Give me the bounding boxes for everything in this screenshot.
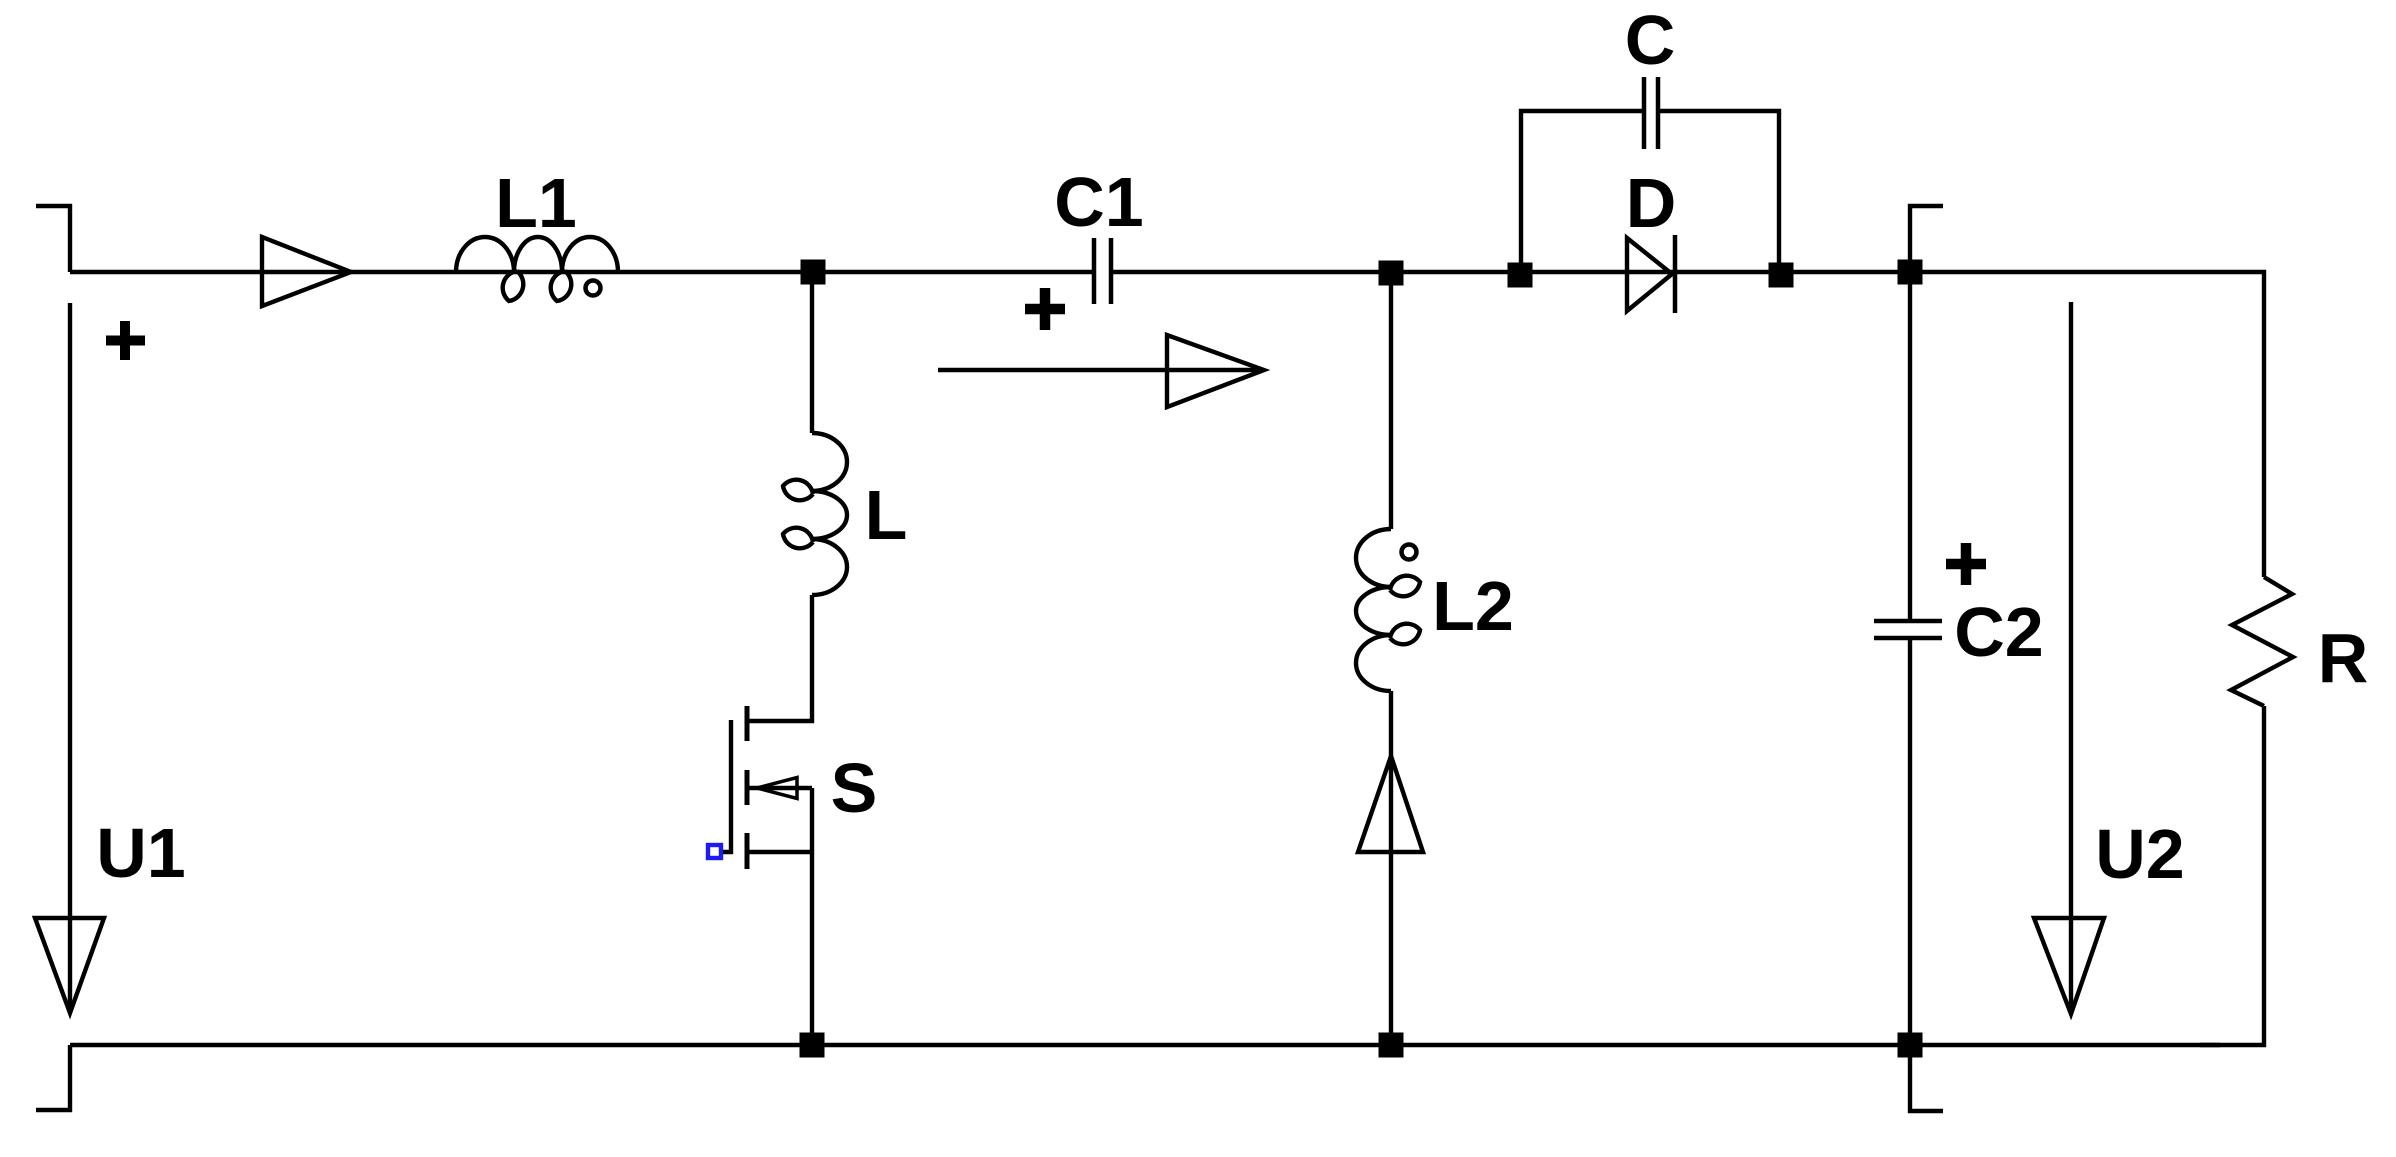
wire mosfet source to bottom rail bbox=[810, 852, 814, 1045]
mosfet S body connection wire bbox=[749, 788, 812, 852]
capacitor C left plate bbox=[1642, 77, 1647, 149]
current arrow input bbox=[262, 237, 351, 306]
plus sign C1 bbox=[1025, 288, 1065, 330]
node rail below S bbox=[800, 1033, 825, 1058]
capacitor C2 bottom plate bbox=[1874, 636, 1942, 641]
wire inductor L to mosfet drain bbox=[749, 595, 812, 721]
wire capacitor C2 to bottom rail bbox=[1908, 640, 1912, 1045]
mosfet S gate terminal square bbox=[708, 845, 721, 858]
inductor L2 bbox=[1356, 529, 1420, 691]
current arrow C1 bbox=[938, 368, 1258, 372]
svg-text:C1: C1 bbox=[1054, 163, 1143, 241]
node rail below L2 bbox=[1379, 1033, 1404, 1058]
diode D triangle bbox=[1627, 238, 1672, 311]
capacitor C right plate bbox=[1656, 77, 1661, 149]
node output top junction bbox=[1898, 260, 1923, 285]
terminal output bottom bbox=[1910, 1045, 1943, 1111]
terminal input top bbox=[36, 206, 70, 272]
inductor L1 bbox=[456, 237, 618, 301]
svg-text:L: L bbox=[865, 476, 908, 554]
mosfet S drain bar bbox=[745, 706, 750, 741]
capacitor C1 right plate bbox=[1109, 238, 1114, 304]
mosfet S gate line bbox=[722, 720, 731, 852]
wire top rail right (C1 right plate to output corner) bbox=[1111, 272, 2264, 577]
node rail output junction bbox=[1898, 1033, 1923, 1058]
node D cathode junction bbox=[1769, 263, 1794, 288]
terminal output top bbox=[1910, 206, 1943, 272]
plus sign C2 bbox=[1946, 543, 1986, 585]
svg-text:C: C bbox=[1625, 1, 1676, 79]
wire node A to inductor L bbox=[810, 272, 814, 433]
capacitor C2 top plate bbox=[1874, 619, 1942, 624]
diode D cathode bar bbox=[1673, 235, 1678, 313]
wire node B to inductor L2 bbox=[1389, 272, 1393, 529]
voltage arrow U2 bbox=[2069, 302, 2073, 1011]
svg-text:S: S bbox=[831, 749, 878, 827]
voltage arrow U1 bbox=[68, 303, 72, 1010]
svg-text:C2: C2 bbox=[1954, 593, 2043, 671]
current arrow L2 branch bbox=[1358, 756, 1423, 852]
svg-text:U2: U2 bbox=[2095, 815, 2184, 893]
dot marker L1 bbox=[586, 281, 601, 296]
bottom rail wire bbox=[70, 1043, 2220, 1047]
wire top rail left (input to C1 left plate) bbox=[70, 270, 1094, 274]
svg-text:L1: L1 bbox=[495, 164, 577, 242]
svg-text:D: D bbox=[1626, 164, 1677, 242]
plus sign input bbox=[106, 321, 145, 360]
wire resistor R to bottom rail bbox=[2200, 706, 2264, 1045]
wire output node to capacitor C2 bbox=[1908, 272, 1912, 619]
svg-text:R: R bbox=[2318, 619, 2369, 697]
capacitor C1 left plate bbox=[1092, 238, 1097, 304]
mosfet S body bar bbox=[745, 770, 750, 805]
terminal input bottom bbox=[36, 1045, 70, 1110]
svg-text:U1: U1 bbox=[96, 814, 185, 892]
dot marker L2 bbox=[1402, 545, 1417, 560]
node A junction (top of switch branch) bbox=[801, 260, 826, 285]
wire C bridge right riser bbox=[1658, 111, 1779, 264]
wire C bridge left riser bbox=[1521, 111, 1644, 268]
inductor L bbox=[783, 433, 847, 595]
node C junction (diode anode / C bridge left) bbox=[1508, 263, 1533, 288]
mosfet S body arrow bbox=[757, 778, 797, 799]
node B junction (top of L2 branch) bbox=[1379, 261, 1404, 286]
mosfet S source bar bbox=[745, 833, 750, 869]
svg-text:L2: L2 bbox=[1432, 567, 1514, 645]
wire inductor L2 to bottom rail bbox=[1389, 691, 1393, 1045]
resistor R bbox=[2231, 577, 2293, 706]
